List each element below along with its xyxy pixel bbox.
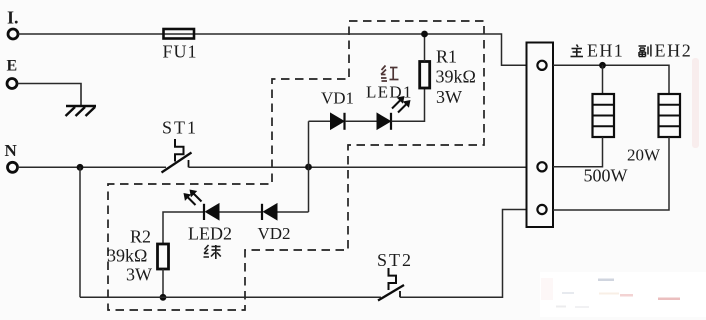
terminal E circle xyxy=(7,79,17,89)
terminal block screw top xyxy=(537,61,546,70)
svg-text:R1: R1 xyxy=(436,47,457,67)
label ST2 xyxy=(377,250,413,270)
wire N line right of ST1 to terminal block xyxy=(189,166,527,168)
label LED1 xyxy=(366,83,413,102)
label R2 xyxy=(130,227,151,247)
svg-text:EH2: EH2 xyxy=(655,41,693,61)
watermark streak right edge xyxy=(692,58,699,148)
svg-text:FU1: FU1 xyxy=(163,42,198,62)
label EH1 xyxy=(587,41,624,61)
wire EH1 bottom to block middle xyxy=(553,137,603,167)
svg-text:LED1: LED1 xyxy=(366,83,413,102)
svg-text:39kΩ: 39kΩ xyxy=(107,246,147,266)
svg-text:EH1: EH1 xyxy=(587,41,624,61)
wire EH1 top lead xyxy=(602,65,604,94)
label R2 power 3W xyxy=(126,265,152,285)
wire EH2 bottom to block bottom xyxy=(553,137,669,210)
label VD2 xyxy=(258,224,291,243)
svg-text:E: E xyxy=(7,58,18,75)
label ST1 xyxy=(162,118,198,138)
terminal L circle xyxy=(8,29,18,39)
node junction on bottom wire at R2 xyxy=(160,294,167,301)
fuse FU1 xyxy=(164,29,195,39)
wire vertical from N junction down to bottom wire xyxy=(79,167,81,297)
heater element EH2 xyxy=(659,94,681,137)
svg-text:LED2: LED2 xyxy=(188,224,232,244)
wire between LED2 and VD2 xyxy=(220,211,263,213)
LED LED2 xyxy=(184,190,219,220)
label VD1 xyxy=(321,89,354,108)
switch ST1 xyxy=(162,139,192,173)
wire R1 top to L line xyxy=(424,34,426,62)
wire vertical branch x308 (VD1 top to VD2 bottom) xyxy=(308,121,310,212)
node junction on N line at x80 xyxy=(77,164,84,171)
dashed thermostat assembly boundary xyxy=(108,21,484,310)
svg-text:N: N xyxy=(5,141,18,160)
svg-text:3W: 3W xyxy=(126,265,152,285)
svg-text:R2: R2 xyxy=(130,227,151,247)
wire diode row upper left segment xyxy=(309,120,331,122)
LED LED1 xyxy=(377,97,410,130)
label main chinese char for EH1 xyxy=(571,45,584,57)
svg-text:ST2: ST2 xyxy=(377,250,413,270)
wire R2 bottom to bottom wire xyxy=(162,269,164,297)
label red chinese char for LED1 xyxy=(381,66,399,82)
wire from LED1 up to R1 xyxy=(392,88,425,121)
label aux chinese char for EH2 xyxy=(639,45,651,57)
wire between VD1 and LED1 xyxy=(345,120,377,122)
label R2 value 39k xyxy=(107,246,147,266)
ground symbol xyxy=(66,106,97,116)
diode VD2 xyxy=(262,204,277,220)
svg-text:VD2: VD2 xyxy=(258,224,291,243)
wire L line to fuse and terminal block xyxy=(18,34,527,65)
node junction at EH1 top xyxy=(599,62,606,69)
wire N line left of ST1 xyxy=(18,166,167,168)
svg-text:39kΩ: 39kΩ xyxy=(436,67,476,87)
wire LED2 left corner from R2 xyxy=(163,212,204,244)
wire VD2 to vertical x308 xyxy=(278,211,309,213)
switch ST2 xyxy=(378,268,404,301)
watermark smudge bottom right xyxy=(540,272,706,317)
svg-text:500W: 500W xyxy=(584,166,628,186)
label R1 power 3W xyxy=(436,87,462,107)
wire top rail from block to EH2 xyxy=(553,65,669,94)
svg-text:VD1: VD1 xyxy=(321,89,354,108)
resistor R1 xyxy=(420,62,430,89)
wire bottom rail left of ST2 xyxy=(80,296,381,298)
terminal block screw middle xyxy=(537,162,546,171)
label 20W xyxy=(627,146,661,165)
heater element EH1 xyxy=(593,94,615,137)
label EH2 xyxy=(655,41,693,61)
svg-text:20W: 20W xyxy=(627,146,661,165)
node junction on L line at R1 xyxy=(421,31,428,38)
wire E to ground xyxy=(18,84,82,106)
terminal block screw bottom xyxy=(537,205,546,214)
label 500W xyxy=(584,166,628,186)
label green chinese char for LED2 xyxy=(204,245,221,259)
terminal N circle xyxy=(8,162,18,172)
terminal E label xyxy=(7,58,18,75)
label R1 value 39k xyxy=(436,67,476,87)
svg-text:I.: I. xyxy=(7,8,19,28)
terminal block body xyxy=(527,43,554,228)
terminal L label xyxy=(7,8,19,28)
node junction on N line at x308 xyxy=(305,164,312,171)
resistor R2 xyxy=(158,244,169,269)
diode VD1 xyxy=(331,113,345,130)
svg-text:ST1: ST1 xyxy=(162,118,198,138)
wire bottom rail right of ST2 up to terminal block xyxy=(400,210,527,298)
terminal N label xyxy=(5,141,18,160)
svg-text:3W: 3W xyxy=(436,87,462,107)
label R1 xyxy=(436,47,457,67)
label FU1 xyxy=(163,42,198,62)
label LED2 xyxy=(188,224,232,244)
